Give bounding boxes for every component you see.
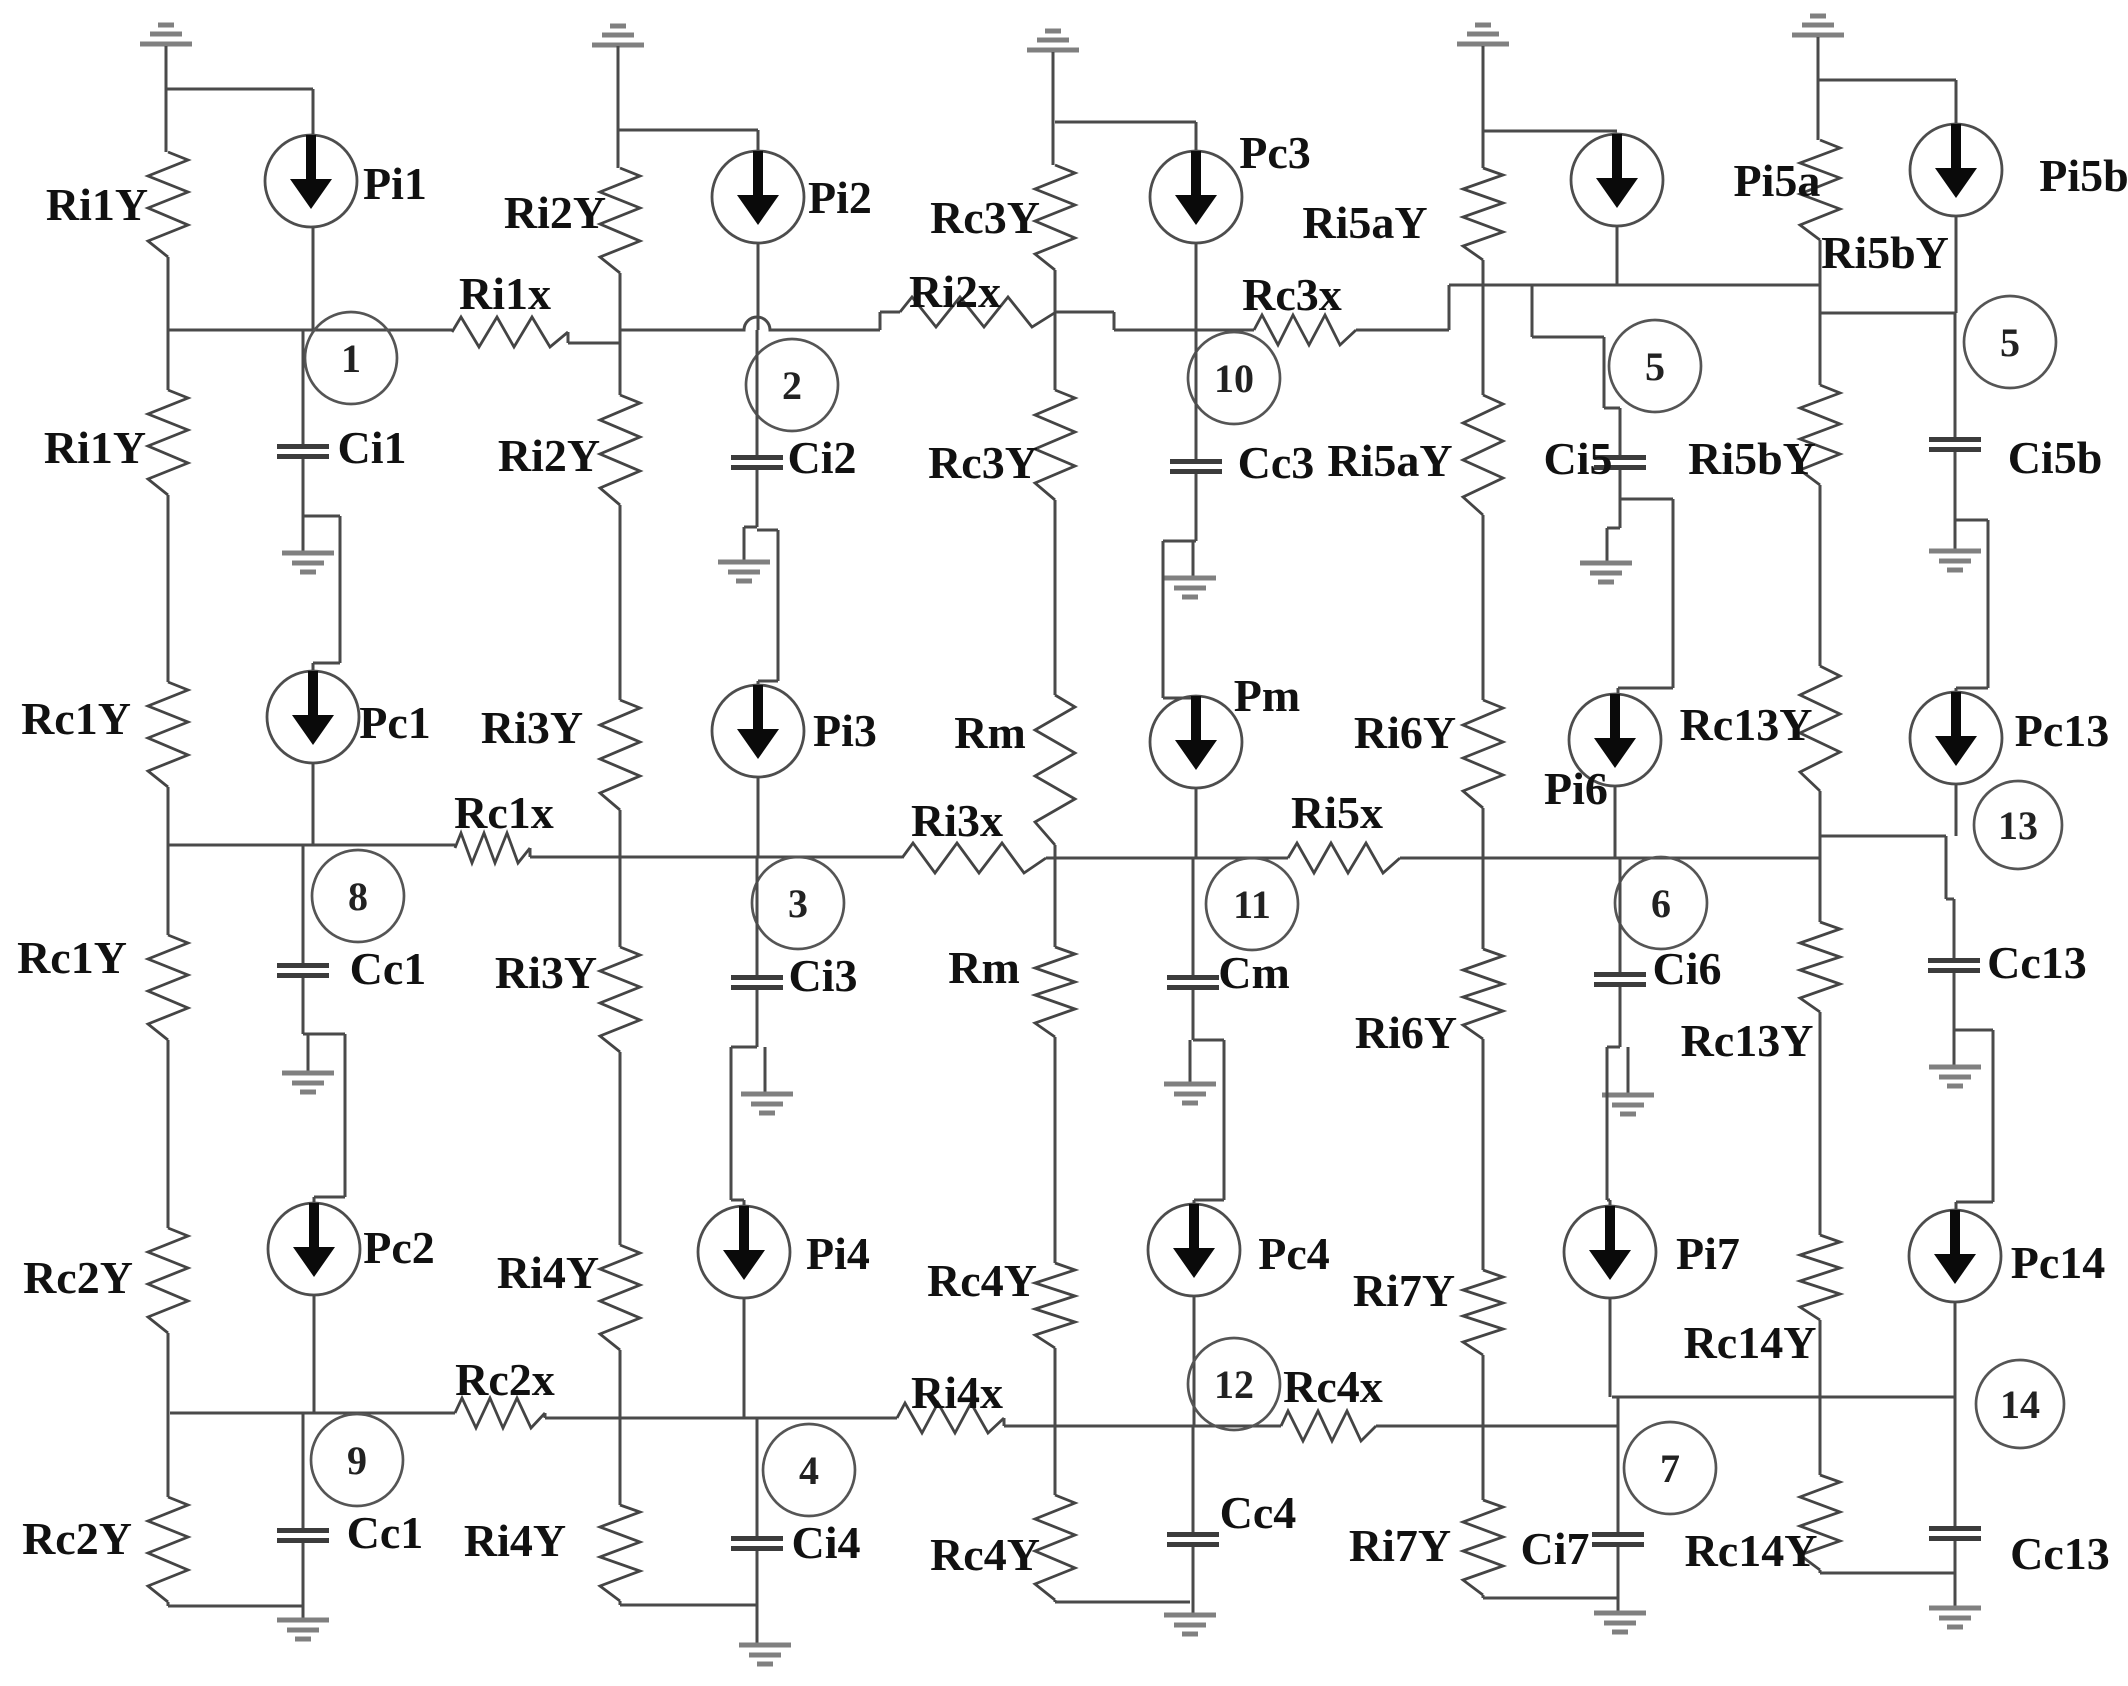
svg-text:Pi4: Pi4 <box>806 1228 870 1279</box>
svg-text:Ci4: Ci4 <box>792 1517 861 1568</box>
svg-text:Rc4Y: Rc4Y <box>927 1255 1037 1306</box>
svg-text:Ri5x: Ri5x <box>1291 787 1383 838</box>
wire <box>1992 1030 1995 1202</box>
wire <box>339 516 342 663</box>
svg-text:Ci6: Ci6 <box>1653 943 1722 994</box>
ground GND Ci3 <box>741 1094 793 1113</box>
wire <box>302 845 305 963</box>
wire <box>1820 1572 1955 1575</box>
wire <box>730 1047 733 1200</box>
wire <box>757 130 760 151</box>
wire <box>880 311 900 314</box>
wire <box>1818 79 1956 82</box>
current source Pc13 <box>1910 692 2002 784</box>
svg-text:Pc3: Pc3 <box>1239 127 1311 178</box>
resistor Ri2Y (rail2) <box>600 395 640 505</box>
wire <box>619 1601 622 1605</box>
wire <box>1954 1029 1993 1032</box>
resistor Ri4Y (rail2) <box>600 1505 640 1601</box>
svg-text:Rc1Y: Rc1Y <box>21 693 131 744</box>
ground GND Cc3 <box>1164 578 1216 597</box>
wire <box>1449 284 1821 287</box>
wire <box>1619 408 1622 455</box>
svg-text:Ri2Y: Ri2Y <box>498 430 600 481</box>
resistor Rc3Y (rail3) <box>1035 165 1075 270</box>
wire <box>1055 121 1196 124</box>
svg-text:Rc3Y: Rc3Y <box>930 192 1040 243</box>
current source Pc2 <box>268 1203 360 1295</box>
wire <box>312 763 315 845</box>
resistor Rc13Y (rail5) <box>1800 666 1840 791</box>
wire <box>743 527 746 560</box>
svg-text:Rm: Rm <box>948 942 1020 993</box>
wire <box>529 848 532 857</box>
wire <box>758 680 778 683</box>
node node 13 <box>1974 781 2062 869</box>
wire <box>314 1196 345 1199</box>
wire <box>1987 520 1990 688</box>
ground GND bottom col1 <box>277 1620 329 1639</box>
ground GND bottom col2 <box>739 1645 791 1664</box>
wire <box>757 529 778 532</box>
node node 7 <box>1624 1422 1716 1514</box>
svg-text:6: 6 <box>1651 881 1671 926</box>
current source Pi4 <box>698 1206 790 1298</box>
svg-text:Cc3: Cc3 <box>1238 437 1315 488</box>
node node 6 <box>1615 857 1707 949</box>
svg-text:Ri4Y: Ri4Y <box>497 1247 599 1298</box>
wire <box>1162 541 1165 698</box>
wire <box>1607 527 1620 530</box>
svg-text:Rc3Y: Rc3Y <box>928 437 1038 488</box>
wire <box>1056 311 1114 314</box>
wire <box>1052 52 1055 165</box>
wire <box>1482 46 1485 168</box>
resistor Ri4x <box>897 1403 1004 1433</box>
wire <box>568 342 620 345</box>
svg-text:Rc1x: Rc1x <box>454 787 554 838</box>
node node 10 <box>1188 332 1280 424</box>
wire <box>1046 857 1288 860</box>
wire <box>1113 312 1116 330</box>
wire <box>619 505 622 700</box>
svg-text:8: 8 <box>348 874 368 919</box>
resistor Rc2Y (rail1) <box>148 1497 188 1602</box>
svg-text:Ri4Y: Ri4Y <box>464 1515 566 1566</box>
svg-text:Pc13: Pc13 <box>2015 705 2110 756</box>
wire <box>313 1295 316 1413</box>
wire <box>1617 688 1620 694</box>
wire <box>743 1200 746 1206</box>
wire <box>1194 1199 1224 1202</box>
current source Pi2 <box>712 151 804 243</box>
wire <box>1604 407 1620 410</box>
ground GND top col1 <box>140 25 192 44</box>
wire <box>567 332 570 343</box>
ground GND top col4 <box>1457 25 1509 44</box>
svg-text:Pc14: Pc14 <box>2011 1237 2106 1288</box>
node node 8 <box>312 850 404 942</box>
resistor Rc1Y (rail1) <box>148 682 188 787</box>
svg-text:Ri2Y: Ri2Y <box>504 187 606 238</box>
wire <box>1482 1039 1485 1270</box>
svg-text:Pi6: Pi6 <box>1544 763 1608 814</box>
wire <box>167 1040 170 1228</box>
wire <box>1482 1595 1485 1598</box>
wire <box>619 1052 622 1245</box>
wire <box>1356 329 1449 332</box>
resistor Ri6Y (rail4) <box>1463 700 1503 808</box>
wire <box>1163 540 1196 543</box>
wire <box>1955 80 1958 124</box>
svg-text:4: 4 <box>799 1448 819 1493</box>
wire <box>618 129 758 132</box>
svg-text:Ri5aY: Ri5aY <box>1302 197 1427 248</box>
svg-text:Rm: Rm <box>954 707 1026 758</box>
wire <box>530 856 902 859</box>
svg-text:Ri3Y: Ri3Y <box>481 702 583 753</box>
capacitor Ci5 <box>1594 455 1646 470</box>
node node 4 <box>763 1424 855 1516</box>
node node 5 (col4) <box>1609 320 1701 412</box>
wire <box>1004 1425 1281 1428</box>
wire <box>1609 1200 1612 1206</box>
resistor Rc1Y (rail1) <box>148 935 188 1040</box>
resistor Rc3Y (rail3) <box>1035 390 1075 500</box>
current source Pm <box>1150 696 1242 788</box>
wire <box>1617 1426 1620 1532</box>
current source Pi7 <box>1564 1206 1656 1298</box>
capacitor Ci4 <box>731 1536 783 1551</box>
svg-text:Pc2: Pc2 <box>363 1222 435 1273</box>
resistor Rc4Y (rail3) <box>1035 1495 1075 1600</box>
svg-text:Ri5aY: Ri5aY <box>1327 435 1452 486</box>
resistor Ri6Y (rail4) <box>1463 949 1503 1039</box>
wire <box>167 1602 170 1606</box>
wire <box>1954 452 1957 520</box>
svg-text:5: 5 <box>1645 344 1665 389</box>
wire <box>1531 285 1534 337</box>
resistor Ri5x <box>1288 843 1400 873</box>
resistor Ri2x <box>900 297 1056 327</box>
wire <box>1193 1039 1224 1042</box>
ground GND top col3 <box>1027 31 1079 50</box>
resistor Ri3x <box>902 843 1046 873</box>
svg-text:Rc13Y: Rc13Y <box>1680 699 1813 750</box>
svg-text:Ri6Y: Ri6Y <box>1354 707 1456 758</box>
wire <box>1954 1397 1957 1526</box>
resistor Rc4x <box>1281 1411 1376 1441</box>
capacitor Cc4 <box>1167 1532 1219 1547</box>
wire <box>1163 697 1196 700</box>
node node 3 <box>752 857 844 949</box>
svg-text:Pi2: Pi2 <box>808 172 872 223</box>
wire <box>1189 1040 1192 1082</box>
svg-text:Pi3: Pi3 <box>813 705 877 756</box>
ground GND Ci2 <box>718 562 770 581</box>
wire <box>1953 1030 1956 1065</box>
wire <box>302 459 305 516</box>
wire <box>1819 1570 1822 1573</box>
svg-text:Rc4x: Rc4x <box>1283 1361 1383 1412</box>
wire <box>1054 1348 1057 1495</box>
svg-text:Ri5bY: Ri5bY <box>1688 433 1816 484</box>
wire <box>1192 1547 1195 1613</box>
svg-text:Cc1: Cc1 <box>347 1507 424 1558</box>
svg-text:Pc1: Pc1 <box>359 697 431 748</box>
resistor Ri5aY (rail4) <box>1463 395 1503 515</box>
wire <box>544 1413 547 1418</box>
wire <box>879 312 882 330</box>
wire <box>1619 857 1622 972</box>
wire <box>167 495 170 682</box>
wire <box>1055 1601 1190 1604</box>
capacitor Cc1 <box>277 963 329 978</box>
wire <box>1946 898 1954 901</box>
wire <box>344 1034 347 1197</box>
capacitor Ci2 <box>731 455 783 470</box>
svg-text:Cc4: Cc4 <box>1220 1487 1297 1538</box>
wire <box>1616 226 1619 285</box>
wire <box>1619 987 1622 1047</box>
svg-text:11: 11 <box>1233 882 1271 927</box>
ground GND Ci1 <box>282 553 334 572</box>
node node 12 <box>1188 1338 1280 1430</box>
wire <box>756 990 759 1047</box>
ground GND Ci6 <box>1602 1095 1654 1114</box>
wire <box>619 1350 622 1505</box>
wire <box>1819 791 1822 922</box>
wire <box>313 662 340 665</box>
svg-text:Pm: Pm <box>1234 670 1300 721</box>
wire <box>313 1197 316 1203</box>
svg-text:Rc4Y: Rc4Y <box>930 1529 1040 1580</box>
svg-text:9: 9 <box>347 1438 367 1483</box>
ground GND top col5 <box>1792 16 1844 35</box>
wire <box>165 46 168 152</box>
wire <box>1482 260 1485 395</box>
svg-text:Pi1: Pi1 <box>363 158 427 209</box>
wire <box>1607 1199 1610 1202</box>
wire <box>1819 485 1822 666</box>
svg-text:Ri1x: Ri1x <box>459 268 551 319</box>
svg-text:Ri4x: Ri4x <box>911 1367 1003 1418</box>
wire <box>1620 498 1673 501</box>
wire <box>1618 687 1673 690</box>
resistor Ri3Y (rail2) <box>600 700 640 810</box>
wire <box>1400 857 1821 860</box>
wire <box>731 1199 744 1202</box>
wire <box>1817 37 1820 140</box>
wire <box>1672 499 1675 688</box>
wire <box>756 330 759 455</box>
current source Pi3 <box>712 685 804 777</box>
wire <box>1954 1541 1957 1606</box>
capacitor Ci5b <box>1929 437 1981 452</box>
wire <box>1955 1202 1958 1210</box>
wire <box>1819 1320 1822 1475</box>
svg-text:Rc14Y: Rc14Y <box>1684 1317 1817 1368</box>
wire <box>756 1551 759 1643</box>
svg-text:Pi5b: Pi5b <box>2039 150 2128 201</box>
ground GND Ci5b <box>1929 551 1981 570</box>
wire <box>1606 528 1609 561</box>
current source Pc14 <box>1909 1210 2001 1302</box>
svg-text:12: 12 <box>1214 1362 1254 1407</box>
resistor Ri1Y (rail1) <box>148 390 188 495</box>
wire <box>1953 973 1956 1030</box>
wire <box>1482 1355 1485 1500</box>
wire <box>1483 130 1617 133</box>
wire <box>302 516 305 551</box>
svg-text:Ri2x: Ri2x <box>909 266 1001 317</box>
node node 1 <box>305 312 397 404</box>
capacitor Cc13 (bottom) <box>1929 1526 1981 1541</box>
wire <box>1819 1012 1822 1235</box>
wire <box>1223 1040 1226 1200</box>
svg-text:Rc1Y: Rc1Y <box>17 932 127 983</box>
wire <box>1603 337 1606 408</box>
wire <box>777 530 780 681</box>
current source Pi6 <box>1569 694 1661 786</box>
wire <box>1612 1396 1956 1399</box>
wire <box>302 1413 305 1528</box>
wire <box>1617 1547 1620 1611</box>
wire <box>1054 500 1057 695</box>
svg-text:Ci2: Ci2 <box>788 432 857 483</box>
svg-text:1: 1 <box>341 336 361 381</box>
svg-text:Ci3: Ci3 <box>789 950 858 1001</box>
svg-text:Pc4: Pc4 <box>1258 1228 1330 1279</box>
ground GND Cm <box>1164 1084 1216 1103</box>
resistor Rm (rail3) <box>1035 695 1075 845</box>
capacitor Ci1 <box>277 444 329 459</box>
wire <box>170 1412 455 1415</box>
wire <box>1054 1600 1057 1602</box>
current source Pc1 <box>267 671 359 763</box>
capacitor Ci7 <box>1592 1532 1644 1547</box>
resistor Rc14Y (rail5) <box>1800 1235 1840 1320</box>
resistor Rc1x <box>455 833 530 863</box>
capacitor Cc1 (bottom) <box>277 1528 329 1543</box>
current source Pc3 <box>1150 151 1242 243</box>
resistor Ri4Y (rail2) <box>600 1245 640 1350</box>
wire <box>312 227 315 330</box>
capacitor Cc3 <box>1170 459 1222 474</box>
wire <box>1054 1037 1057 1263</box>
ground GND Ci5 <box>1580 563 1632 582</box>
svg-text:Pi7: Pi7 <box>1676 1228 1740 1279</box>
wire <box>1054 270 1057 390</box>
wire <box>167 787 170 935</box>
wire <box>302 1543 305 1618</box>
resistor Ri2Y (rail2) <box>600 168 640 273</box>
wire <box>1054 845 1057 947</box>
node node 2 <box>746 339 838 431</box>
wire <box>168 1605 303 1608</box>
ground GND Cc1 <box>282 1073 334 1092</box>
resistor Rc14Y (rail5) <box>1800 1475 1840 1570</box>
wire <box>1483 1597 1618 1600</box>
wire <box>757 681 760 685</box>
wire <box>1954 1302 1957 1397</box>
wire <box>1482 515 1485 700</box>
resistor Ri1Y (rail1) <box>148 152 188 257</box>
wire <box>312 89 315 135</box>
wire <box>1956 1201 1993 1204</box>
svg-text:Ci5b: Ci5b <box>2008 432 2103 483</box>
svg-text:7: 7 <box>1660 1446 1680 1491</box>
resistor Ri1x <box>452 317 568 347</box>
resistor Rc2Y (rail1) <box>148 1228 188 1333</box>
svg-text:Rc2x: Rc2x <box>455 1354 555 1405</box>
wire <box>1627 1047 1630 1093</box>
wire <box>1619 470 1622 528</box>
wire <box>1195 788 1198 857</box>
wire <box>744 526 757 529</box>
svg-text:Cc13: Cc13 <box>1987 937 2087 988</box>
svg-text:2: 2 <box>782 363 802 408</box>
resistor Ri3Y (rail2) <box>600 947 640 1052</box>
node node 11 <box>1206 858 1298 950</box>
resistor Rc3x <box>1254 315 1356 345</box>
wire <box>756 857 759 975</box>
wire <box>1954 520 1957 549</box>
wire <box>1606 1047 1609 1200</box>
current source Pi1 <box>265 135 357 227</box>
wire <box>1195 474 1198 541</box>
svg-text:13: 13 <box>1998 803 2038 848</box>
current source Pi5b <box>1910 124 2002 216</box>
wire <box>1617 1397 1620 1426</box>
svg-text:Ri7Y: Ri7Y <box>1353 1265 1455 1316</box>
svg-text:Ri6Y: Ri6Y <box>1355 1007 1457 1058</box>
svg-text:Rc14Y: Rc14Y <box>1685 1525 1818 1576</box>
wire <box>757 777 760 857</box>
svg-text:Rc13Y: Rc13Y <box>1681 1015 1814 1066</box>
wire <box>731 1046 757 1049</box>
node node 14 <box>1976 1360 2064 1448</box>
capacitor Cc13 <box>1928 958 1980 973</box>
node node 5 (col5) <box>1964 296 2056 388</box>
wire <box>1956 687 1988 690</box>
svg-text:3: 3 <box>788 881 808 926</box>
svg-text:10: 10 <box>1214 356 1254 401</box>
wire <box>1955 519 1988 522</box>
wire <box>1609 1298 1612 1397</box>
svg-text:Rc3x: Rc3x <box>1242 269 1342 320</box>
wire <box>302 978 305 1034</box>
wire <box>743 1298 746 1418</box>
wire <box>302 330 305 444</box>
wire <box>764 1047 767 1092</box>
ground GND Cc13 <box>1929 1067 1981 1086</box>
current source Pi5a <box>1571 134 1663 226</box>
svg-text:Cc13: Cc13 <box>2010 1528 2110 1579</box>
svg-text:Rc2Y: Rc2Y <box>23 1252 133 1303</box>
capacitor Ci3 <box>731 975 783 990</box>
wire <box>168 844 455 847</box>
svg-text:Ri3x: Ri3x <box>911 795 1003 846</box>
wire <box>1945 836 1948 899</box>
wire <box>1953 899 1956 958</box>
svg-text:Ci5: Ci5 <box>1544 433 1613 484</box>
resistor Ri5aY (rail4) <box>1463 168 1503 260</box>
svg-text:Ri7Y: Ri7Y <box>1349 1520 1451 1571</box>
wire <box>1821 312 1956 315</box>
wire <box>1532 336 1604 339</box>
wire <box>1114 329 1254 332</box>
